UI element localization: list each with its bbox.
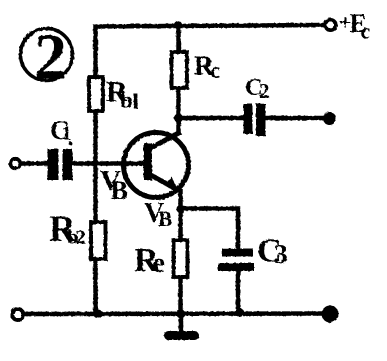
svg-text:e: e [153,248,165,279]
svg-text:B: B [158,207,172,231]
svg-text:c: c [361,19,371,44]
svg-text:3: 3 [274,238,288,269]
svg-text:b: b [120,88,133,113]
svg-text:2: 2 [259,79,270,103]
svg-text:2: 2 [34,21,67,94]
svg-text:c: c [210,58,220,83]
svg-text:1: 1 [62,123,72,145]
svg-text:2: 2 [76,227,86,249]
svg-text:B: B [111,176,128,205]
